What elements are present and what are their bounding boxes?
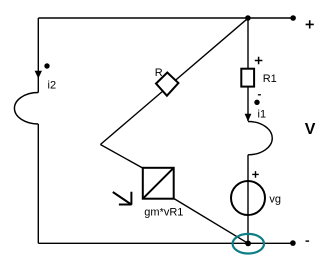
- wire diagonal to dependent source: [100, 145, 143, 169]
- i2 probe dot: [44, 63, 49, 68]
- wire bottom from left corner to right terminal: [38, 242, 293, 244]
- svg-text:vg: vg: [269, 193, 281, 205]
- voltage source vg (circle): [231, 181, 265, 215]
- terminal dot top right: [290, 15, 296, 21]
- plus sign top right: [306, 20, 314, 28]
- junction node top: [245, 15, 251, 21]
- teal highlight ellipse on bottom node: [233, 234, 264, 254]
- svg-text:i2: i2: [48, 80, 57, 92]
- svg-text:R1: R1: [263, 73, 277, 85]
- svg-text:V: V: [305, 121, 316, 138]
- svg-text:i1: i1: [258, 109, 267, 121]
- resistor R (rotated square): [156, 73, 178, 96]
- wire diagonal upper (top junction to left vertex): [100, 18, 248, 144]
- wire right branch above R1: [247, 18, 249, 70]
- resistor R1 (rectangle): [241, 69, 254, 87]
- R1 minus sign: [258, 94, 261, 96]
- current arrow i1: [245, 114, 252, 122]
- wire top from left corner to right terminal: [38, 17, 293, 19]
- i1 probe dot: [254, 100, 259, 105]
- current arrow i2: [35, 71, 42, 79]
- R1 plus sign: [255, 57, 263, 65]
- junction node bottom (highlighted): [245, 241, 251, 247]
- wire right branch R1 to i1 arrow: [247, 86, 249, 121]
- minus sign bottom right: [306, 240, 310, 242]
- wire left loop arc (current loop i2): [14, 93, 38, 125]
- wire right branch through vg to bottom node: [247, 155, 249, 244]
- svg-text:R: R: [155, 67, 163, 79]
- wire right loop arc (current loop i1): [248, 122, 272, 155]
- svg-text:gm*vR1: gm*vR1: [144, 206, 183, 218]
- wire left lower segment: [37, 124, 39, 243]
- terminal dot bottom right: [290, 240, 296, 246]
- vg plus sign: [252, 171, 259, 178]
- wire left upper segment: [37, 18, 39, 93]
- wire diagonal from dependent source to bottom node: [173, 198, 248, 243]
- dependent source direction arrow: [113, 192, 132, 205]
- dependent source U1 (square with diagonal) gm*vR1: [143, 168, 174, 199]
